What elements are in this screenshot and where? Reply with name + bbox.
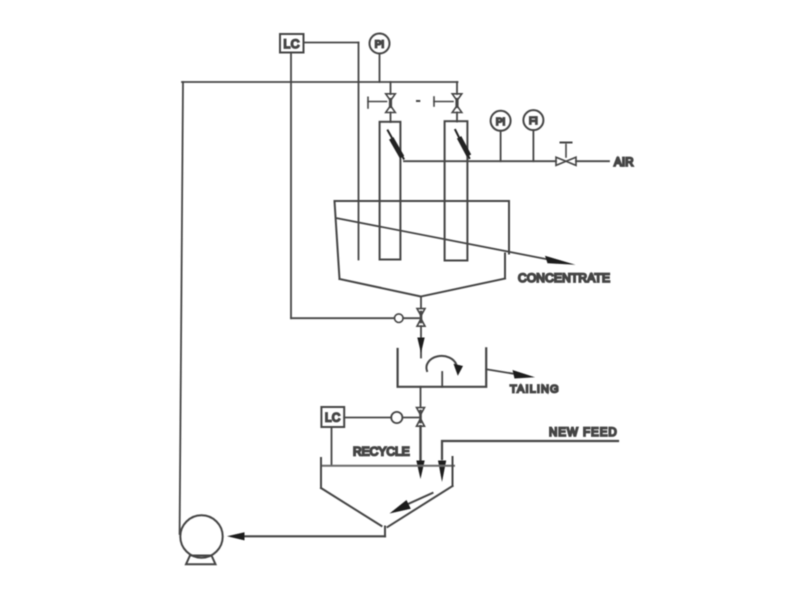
wire dip tube (level sensing line into cell) [358,43,360,260]
wire LC1 to dip tube [304,42,359,44]
valve V1 (column 1 feed valve) [368,94,395,113]
actuator diaphragm circle for V4 [395,314,404,323]
pipe underflow to tailing box with arrow [417,326,424,357]
level controller LC1 box [280,34,304,53]
tailing box vessel [398,348,487,386]
flotation cell tank [335,201,510,297]
new feed arrow into sump [438,461,446,483]
stray dash mark [417,100,419,102]
svg-text:FI: FI [529,116,538,127]
wire valve V1 to column 1 [390,113,392,123]
valve V2 (column 2 feed valve) [434,94,462,113]
wire cell underflow spout [420,297,422,308]
wire PI2 tap [500,131,502,161]
node NEW FEED label [549,427,618,439]
valve V5 (recycle control valve) [417,408,425,427]
wire LC2 level tap [331,427,333,465]
wire recycle pump riser (left loop vertical) [180,82,183,534]
pressure indicator PI1 [370,34,390,54]
actuator diaphragm circle for V5 [391,412,402,423]
sparger lance column 2 [455,130,469,158]
svg-text:PI: PI [496,117,505,128]
pipe new feed line [442,441,618,459]
pipe recycle into sump with arrow [416,426,424,479]
sparger lance column 1 [388,131,404,159]
level controller LC2 box [321,407,344,427]
wire actuator to valve V5 [402,417,418,419]
node RECYCLE label [353,445,410,459]
svg-text:AIR: AIR [614,157,634,169]
weir plate tick in tailing box [441,372,443,387]
wire valve V2 to column 2 [456,113,458,122]
svg-text:CONCENTRATE: CONCENTRATE [518,271,610,285]
recirculation curved arrow in tailing box [426,356,463,376]
wire actuator to valve V4 [403,317,419,319]
pipe tailing outflow with arrow [486,369,535,378]
concentrate launder line with arrow [336,218,576,265]
wire LC1 sense line down [290,53,292,319]
svg-text:PI: PI [375,40,384,51]
svg-text:RECYCLE: RECYCLE [353,445,410,459]
valve V4 (cell underflow control valve) [417,309,425,327]
flotation column 1 [380,122,401,260]
pipe air inlet [576,160,609,162]
recycle sump tank [321,457,454,536]
wire stem to valve V1 [390,82,392,94]
pipe sump outlet to pump with arrow [227,532,385,540]
svg-text:LC: LC [325,413,341,425]
valve V3 (air supply valve) [556,143,576,166]
wire LC1 sense line horizontal to valve actuator [291,317,394,319]
recycle pump P1 [180,515,222,564]
svg-text:NEW FEED: NEW FEED [549,427,618,439]
wire FI1 tap [532,130,534,161]
node AIR label [614,157,634,169]
wire top distribution header [182,81,458,83]
flow indicator FI1 [523,110,543,130]
pipe air header [404,160,556,162]
wire drop to valve V2 [456,82,458,94]
flotation column 2 [445,121,468,260]
node TAILING label [510,384,560,396]
wire LC2 to actuator [344,417,391,419]
pressure indicator PI2 [491,111,511,131]
svg-text:LC: LC [284,37,300,51]
flow arrow inside sump [390,493,433,514]
svg-text:TAILING: TAILING [510,384,560,396]
wire PI1 tap [379,54,381,83]
node CONCENTRATE label [518,271,610,285]
wire tailing box bottom outlet [420,387,422,407]
